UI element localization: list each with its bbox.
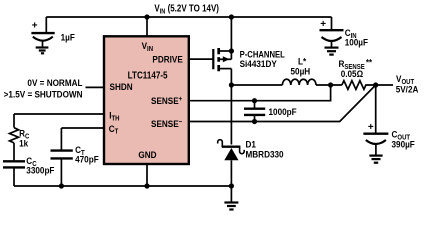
svg-text:+: + (368, 122, 374, 133)
svg-text:1µF: 1µF (61, 32, 76, 43)
svg-text:GND: GND (138, 150, 157, 161)
svg-text:+: + (320, 19, 326, 30)
svg-text:+: + (32, 20, 38, 31)
svg-text:SENSE+: SENSE+ (151, 95, 182, 106)
svg-text:3300pF: 3300pF (26, 165, 55, 176)
svg-text:0.05Ω: 0.05Ω (341, 69, 363, 80)
svg-text:100µF: 100µF (345, 37, 369, 48)
svg-text:MBRD330: MBRD330 (246, 149, 284, 160)
svg-text:PDRIVE: PDRIVE (152, 54, 182, 65)
svg-text:>1.5V = SHUTDOWN: >1.5V = SHUTDOWN (4, 89, 83, 100)
svg-text:50µH: 50µH (291, 66, 311, 77)
svg-text:0V = NORMAL: 0V = NORMAL (27, 77, 83, 88)
svg-text:1000pF: 1000pF (269, 107, 298, 118)
svg-text:390µF: 390µF (392, 139, 416, 150)
svg-text:5V/2A: 5V/2A (396, 84, 419, 95)
svg-text:SHDN: SHDN (110, 81, 133, 92)
svg-text:LTC1147-5: LTC1147-5 (128, 70, 168, 81)
svg-text:Si4431DY: Si4431DY (240, 58, 277, 69)
svg-text:1k: 1k (19, 138, 28, 149)
svg-text:470pF: 470pF (75, 154, 99, 165)
svg-text:SENSE−: SENSE− (151, 118, 182, 129)
